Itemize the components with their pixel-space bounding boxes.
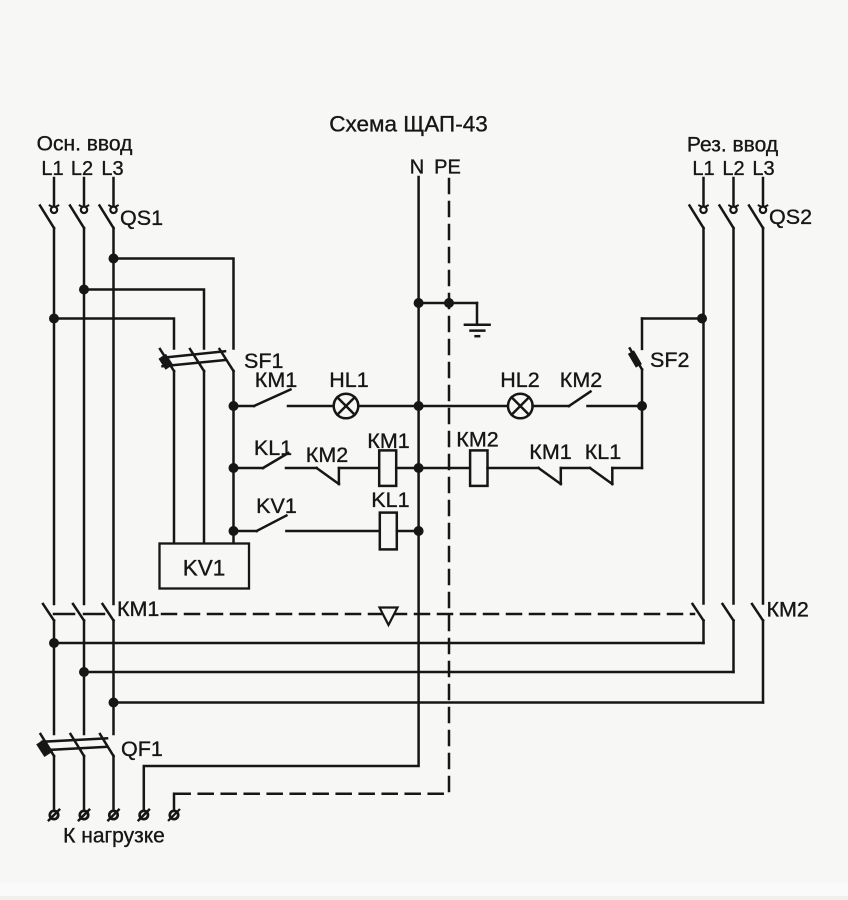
junction N row2 — [414, 463, 424, 473]
disconnect switch QS2 pole 1 — [690, 178, 709, 604]
svg-text:КМ1: КМ1 — [255, 368, 297, 392]
wire KM2 out3 — [114, 701, 764, 704]
wire KM2 out1 — [54, 642, 704, 645]
contact KM1 NC row2 — [539, 468, 591, 484]
junction row1 — [229, 401, 239, 411]
svg-text:PE: PE — [434, 157, 461, 179]
svg-text:Рез. ввод: Рез. ввод — [687, 134, 778, 157]
wire KM2 out2 — [84, 671, 734, 674]
breaker SF2 — [628, 319, 702, 407]
svg-text:КL1: КL1 — [585, 440, 621, 464]
svg-text:L3: L3 — [752, 158, 774, 180]
contact KL1 NC row2 — [590, 468, 642, 484]
junction L2 to SF1 — [79, 285, 89, 295]
wire N vertical — [144, 177, 419, 811]
svg-text:KL1: KL1 — [254, 436, 292, 460]
coil KM1 — [379, 450, 396, 486]
svg-text:L1: L1 — [41, 158, 63, 180]
lamp HL2 — [508, 394, 533, 419]
junction L3 to SF1 — [109, 254, 119, 264]
svg-text:N: N — [410, 157, 424, 179]
wire HL1 to N — [358, 405, 418, 408]
contact KM1 row1 — [234, 390, 334, 407]
svg-text:QS1: QS1 — [120, 206, 163, 230]
lamp HL1 — [334, 394, 359, 419]
disconnect switch QS2 pole 2 — [720, 178, 739, 604]
svg-text:L3: L3 — [101, 158, 123, 180]
junction QS2 L1 tap — [697, 314, 707, 324]
terminal 3 — [108, 810, 118, 820]
wire L3 to SF1 pole3 — [114, 259, 234, 349]
wire QF1 out1 — [53, 756, 56, 811]
mechanical interlock dashed link — [54, 613, 694, 616]
wire row2 riser to SF2 — [641, 406, 644, 468]
contactor KM1 pole 3 — [103, 604, 114, 734]
junction row3 — [229, 526, 239, 536]
svg-text:КМ2: КМ2 — [456, 428, 498, 452]
bottom page strip — [0, 883, 848, 900]
svg-text:KV1: KV1 — [256, 494, 297, 518]
contactor KM1 pole 2 — [73, 604, 84, 734]
svg-text:Схема ЩАП-43: Схема ЩАП-43 — [329, 112, 488, 137]
wire N to HL2 — [419, 405, 508, 408]
junction L1 to SF1 — [49, 314, 59, 324]
contact KL1 row2 — [234, 453, 317, 468]
wire coil KM2 to KM1 NC — [488, 467, 539, 470]
disconnect switch QS1 pole 1 — [40, 178, 59, 604]
junction KM2 out1 — [49, 638, 59, 648]
wire SF1 pole1 to KV1 — [173, 371, 176, 544]
disconnect switch QS1 pole 2 — [70, 178, 89, 604]
contact KM2 NC row2 — [317, 468, 379, 484]
svg-text:КМ2: КМ2 — [560, 368, 602, 392]
wire QF1 out3 — [112, 756, 115, 811]
wire QF1 out2 — [83, 756, 86, 811]
svg-text:KL1: KL1 — [371, 488, 409, 512]
junction N row3 — [414, 526, 424, 536]
svg-text:HL1: HL1 — [329, 368, 368, 392]
interlock triangle — [380, 608, 398, 626]
svg-text:SF2: SF2 — [650, 348, 689, 372]
contact KM2 row1 — [533, 392, 642, 407]
terminal 1 — [49, 810, 59, 820]
wire L2 to SF1 pole2 — [84, 290, 204, 349]
svg-text:КМ2: КМ2 — [306, 443, 348, 467]
junction KM2 out2 — [79, 667, 89, 677]
svg-text:Осн. ввод: Осн. ввод — [37, 133, 133, 156]
terminal 4 N — [139, 810, 149, 820]
disconnect switch QS2 pole 3 — [749, 178, 768, 604]
junction row2 — [229, 463, 239, 473]
wire N to coil KM2 — [419, 467, 471, 470]
wire L1 to SF1 pole1 — [54, 319, 174, 349]
junction N PE bond — [414, 298, 424, 308]
contact KV1 row3 — [234, 516, 380, 532]
wire coil KM1 to N — [396, 467, 418, 470]
junction KM2 out3 — [109, 698, 119, 708]
junction SF2 bottom — [637, 401, 647, 411]
svg-text:QF1: QF1 — [121, 737, 163, 761]
wire PE vertical dashed — [174, 179, 449, 794]
svg-text:HL2: HL2 — [500, 368, 539, 392]
wire SF1 pole3 control bus — [232, 371, 235, 544]
contactor KM1 pole 1 — [43, 604, 54, 734]
contactor KM2 pole 2 — [723, 604, 734, 672]
svg-text:L1: L1 — [692, 158, 714, 180]
circuit breaker SF1 — [158, 349, 233, 371]
terminal 5 PE — [169, 810, 179, 820]
svg-text:КМ1: КМ1 — [367, 429, 409, 453]
svg-text:L2: L2 — [71, 158, 93, 180]
contactor KM2 pole 1 — [693, 604, 704, 643]
svg-text:КМ1: КМ1 — [117, 597, 159, 621]
junction PE bond — [444, 298, 454, 308]
junction N row1 — [414, 401, 424, 411]
wire SF1 pole2 to KV1 — [203, 371, 206, 544]
terminal 2 — [79, 810, 89, 820]
svg-text:КМ2: КМ2 — [767, 598, 809, 622]
wire N PE bond — [419, 302, 477, 305]
ground earth symbol — [465, 303, 490, 336]
svg-text:KV1: KV1 — [183, 556, 226, 581]
circuit breaker QF1 — [36, 734, 113, 757]
coil KM2 — [470, 450, 487, 486]
disconnect switch QS1 pole 3 — [100, 178, 119, 604]
svg-text:QS2: QS2 — [769, 205, 812, 229]
coil KL1 — [380, 513, 397, 550]
contactor KM2 pole 3 — [752, 604, 763, 703]
svg-text:КМ1: КМ1 — [529, 440, 571, 464]
wire coil KL1 to N — [397, 530, 419, 533]
relay box KV1 — [160, 544, 250, 589]
svg-text:L2: L2 — [722, 158, 744, 180]
svg-text:К нагрузке: К нагрузке — [63, 825, 165, 848]
